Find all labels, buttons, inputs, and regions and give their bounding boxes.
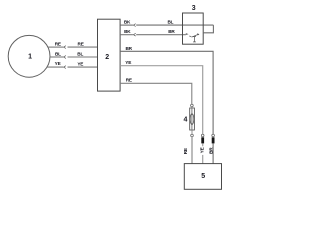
svg-text:RE: RE [78,42,84,47]
box 3 (switch unit) [183,13,204,44]
terminal plug YE (black) [201,137,204,143]
label YE vertical [199,146,204,155]
connector chevron BL [64,56,66,59]
terminal circle YE [201,134,204,137]
wire BR (box 2 right, turns down) [120,51,213,134]
switch lever [192,34,199,37]
svg-text:1: 1 [28,54,32,61]
svg-text:RE: RE [183,148,188,154]
wire YE (terminal to box 5) [202,143,204,163]
wire BR (terminal to box 5) [212,143,214,163]
wire RE (fuse to box 5) [191,137,193,164]
svg-text:3: 3 [192,5,196,12]
svg-text:4: 4 [183,117,187,124]
svg-text:RE: RE [55,41,61,46]
svg-text:BR: BR [168,29,175,34]
box 2 (control unit) [98,19,121,91]
terminal plug BR (black) [212,137,215,143]
svg-text:BK: BK [124,29,131,34]
wire RE (connector to box 2) [68,46,98,48]
wire RE (circle to connector) [48,46,63,48]
svg-text:BR: BR [209,147,214,154]
svg-text:YE: YE [200,147,205,153]
component 1 (motor/generator circle) [8,35,50,77]
svg-text:YE: YE [125,60,131,65]
fuse 4 element ellipse [190,114,194,125]
wire BR (connector to box 3 switch) [136,34,186,36]
svg-text:YE: YE [77,62,83,67]
wire (fuse bottom stub) [191,130,193,134]
fuse 4 body [190,108,195,130]
connector chevron BK/BL [133,24,135,27]
wire BL (connector to box 2) [68,56,98,58]
switch lever arrowhead [197,33,199,35]
terminal circle BR [212,134,215,137]
fuse 4 top terminal [191,104,194,107]
svg-text:BL: BL [77,52,83,57]
wire BL (circle to connector) [50,56,63,58]
fuse 4 bottom terminal [191,134,194,137]
connector chevron RE [64,46,66,49]
svg-text:BK: BK [124,20,131,25]
switch contact arrow (inside box 3) [186,33,189,35]
svg-text:BR: BR [126,46,133,51]
switch plunger [193,37,196,42]
svg-text:RE: RE [126,78,132,83]
svg-text:5: 5 [201,173,205,180]
fuse 4 inner wire [191,107,193,130]
svg-text:BL: BL [55,51,61,56]
svg-text:2: 2 [105,54,109,61]
connector chevron BR/BR [133,33,135,36]
wire loop (box 3 right-side jumper) [203,25,213,33]
wire YE (circle to connector) [47,66,63,68]
switch gap dash [189,35,191,38]
svg-text:YE: YE [55,61,61,66]
box 5 (junction box) [184,164,221,190]
wire RE (box 2 right, turns down to fuse) [120,83,192,104]
wire BL (connector through box 3 to loop) [136,24,213,26]
wire BK (box 2 to connector) [120,24,133,26]
connector chevron YE [64,66,66,69]
svg-text:BL: BL [167,20,173,25]
wire YE (box 2 right, turns down) [120,66,203,134]
wire BR (box 2 to connector) [120,34,133,36]
wire YE (connector to box 2) [68,66,98,68]
